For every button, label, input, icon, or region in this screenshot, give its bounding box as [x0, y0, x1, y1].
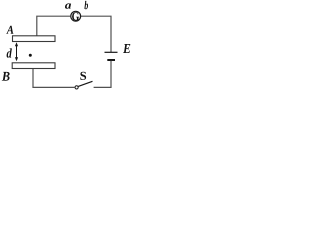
wire from galvanometer to top-right corner down to battery [81, 16, 111, 52]
wire from switch left to bottom-left corner and up to plate B [33, 69, 75, 88]
switch label S [80, 72, 86, 80]
switch S blade [78, 81, 92, 86]
battery label E [123, 44, 130, 53]
node b label [84, 1, 88, 9]
point dot between plates [29, 54, 32, 57]
capacitor plate A [13, 36, 56, 42]
galvanometer G [71, 11, 81, 21]
wire from plate A up to top rail [37, 16, 71, 36]
plate label B [2, 72, 10, 81]
gap dimension double arrow [15, 42, 18, 61]
battery E long plate [105, 51, 118, 53]
plate label A [6, 26, 13, 34]
gap distance label d [7, 48, 12, 57]
battery E short plate [107, 59, 115, 61]
wire from battery down to bottom-right corner and left to switch [94, 61, 111, 88]
capacitor plate B [12, 63, 55, 69]
switch S pivot contact [75, 86, 78, 89]
node a label [65, 3, 71, 8]
